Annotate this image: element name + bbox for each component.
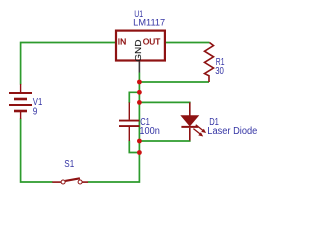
svg-text:GND: GND	[133, 40, 143, 62]
capacitor C1	[119, 102, 139, 141]
switch S1	[52, 178, 88, 184]
regulator U1 LM1117 body	[116, 31, 165, 61]
junction node	[137, 139, 142, 144]
wire	[21, 119, 53, 183]
wire	[129, 141, 139, 153]
wire	[139, 81, 209, 83]
svg-text:IN: IN	[118, 37, 127, 47]
junction node	[137, 150, 142, 155]
GND pin stub	[138, 62, 140, 73]
battery V1	[9, 84, 32, 119]
svg-text:100n: 100n	[139, 126, 159, 137]
wire	[139, 101, 190, 103]
wire	[166, 42, 210, 44]
wire	[21, 43, 115, 85]
wire	[129, 92, 139, 103]
svg-text:LM1117: LM1117	[133, 17, 165, 27]
wire	[139, 140, 190, 142]
junction node	[137, 80, 142, 85]
wire	[88, 73, 140, 183]
diode D1 laser diode	[181, 102, 198, 140]
svg-text:30: 30	[215, 66, 224, 77]
svg-text:9: 9	[33, 106, 38, 117]
svg-text:Laser Diode: Laser Diode	[207, 126, 257, 137]
laser emission arrows	[193, 125, 206, 137]
svg-text:OUT: OUT	[143, 37, 160, 47]
junction node	[137, 100, 142, 105]
svg-text:S1: S1	[64, 159, 74, 170]
junction node	[137, 90, 142, 95]
resistor R1	[205, 43, 214, 83]
